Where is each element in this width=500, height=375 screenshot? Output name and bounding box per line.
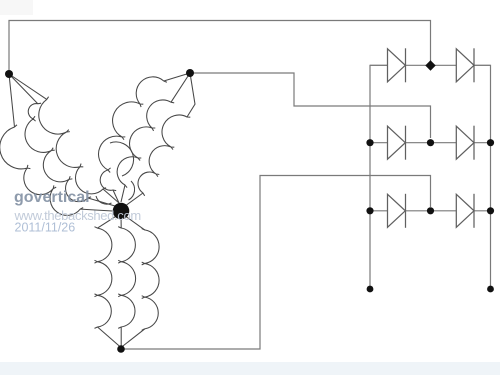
node phase A terminal	[5, 70, 13, 78]
svg-text:2011/11/26: 2011/11/26	[15, 221, 76, 235]
diode D3b	[456, 194, 474, 228]
winding A/B tail curls near star point	[96, 196, 112, 204]
wire row 3 right diode to bus	[474, 210, 491, 212]
diode D2b	[456, 126, 474, 160]
diode D2a	[388, 126, 406, 160]
winding A strand 3	[0, 125, 83, 216]
node row3 left	[366, 207, 373, 214]
wire row 3 bus to left diode	[370, 210, 388, 212]
wire row 2 mid node to right diode	[431, 142, 457, 144]
positive bus	[474, 65, 491, 289]
wire phase A to bridge top	[9, 21, 431, 75]
bottom light band	[0, 362, 500, 375]
diode D1a	[388, 48, 406, 82]
node row3 mid	[427, 207, 434, 214]
node phase B terminal	[186, 69, 194, 77]
winding C strand middle	[118, 227, 135, 329]
wire row 1 mid node to right diode	[431, 64, 457, 66]
wire row 1 bus to left diode	[370, 64, 388, 66]
wire row 3 mid node to right diode	[431, 210, 457, 212]
wire row 2 bus to left diode	[370, 142, 388, 144]
wire phase B to bridge middle	[190, 73, 431, 138]
wire row 1 right diode to bus	[474, 64, 491, 66]
top-left light patch	[0, 0, 33, 15]
winding C strand left	[95, 227, 112, 329]
wire row 1 left diode to mid node	[406, 64, 431, 66]
winding A strand 2	[25, 103, 91, 201]
winding B strand 2	[117, 100, 174, 188]
node row3 right	[487, 207, 494, 214]
wire row 3 left diode to mid node	[406, 210, 431, 212]
node row2 right	[487, 139, 494, 146]
wire phase C to bridge bottom	[121, 176, 431, 350]
winding B strand 3	[138, 115, 190, 196]
winding A strand 1	[39, 97, 106, 194]
node row2 left	[366, 139, 373, 146]
winding C strand right	[142, 229, 159, 331]
diode D1b	[456, 48, 474, 82]
node phase C terminal	[117, 345, 125, 353]
node bridge top (diamond)	[425, 60, 435, 70]
diode D3a	[388, 194, 406, 228]
svg-text:govertical: govertical	[14, 189, 90, 206]
winding C leads top	[98, 213, 122, 228]
winding B strand 1	[99, 77, 167, 191]
wire row 2 right diode to bus	[474, 142, 491, 144]
node star point	[113, 203, 130, 220]
wire row 2 left diode to mid node	[406, 142, 431, 144]
terminal negative	[367, 286, 374, 293]
negative bus	[370, 65, 388, 289]
terminal positive	[487, 286, 494, 293]
winding A leads	[9, 74, 47, 99]
winding A strand 1 end curl	[110, 142, 134, 176]
node row2 mid	[427, 139, 434, 146]
winding B leads	[164, 73, 190, 81]
